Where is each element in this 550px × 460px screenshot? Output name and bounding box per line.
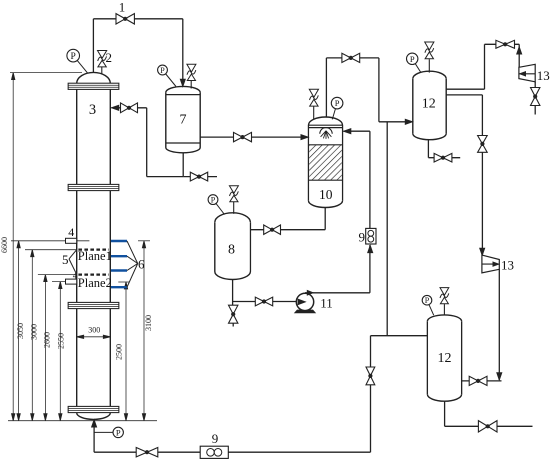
svg-text:12: 12: [438, 351, 452, 366]
svg-text:2600: 2600: [42, 332, 51, 348]
svg-text:Plane2: Plane2: [78, 276, 112, 290]
svg-text:P: P: [116, 427, 121, 437]
svg-text:6600: 6600: [0, 237, 9, 253]
svg-text:P: P: [410, 54, 415, 64]
svg-text:3: 3: [89, 102, 96, 118]
svg-text:9: 9: [212, 431, 219, 446]
svg-text:7: 7: [180, 113, 187, 128]
svg-text:P: P: [335, 98, 340, 108]
svg-text:10: 10: [319, 187, 333, 202]
svg-text:13: 13: [537, 68, 550, 83]
svg-text:P: P: [71, 52, 76, 62]
svg-text:2500: 2500: [114, 344, 123, 360]
svg-text:P: P: [211, 195, 216, 204]
svg-text:6: 6: [138, 257, 145, 272]
svg-text:13: 13: [501, 257, 514, 272]
svg-text:3050: 3050: [16, 323, 25, 339]
svg-text:2550: 2550: [57, 333, 66, 349]
svg-text:4: 4: [68, 225, 74, 239]
svg-text:3100: 3100: [144, 315, 153, 331]
svg-text:2: 2: [105, 50, 112, 65]
svg-text:Plane1: Plane1: [78, 249, 112, 263]
svg-text:P: P: [425, 296, 430, 305]
svg-text:300: 300: [88, 325, 100, 334]
svg-text:9: 9: [359, 229, 366, 244]
svg-text:3000: 3000: [29, 324, 38, 340]
svg-text:1: 1: [119, 0, 126, 15]
svg-text:12: 12: [422, 97, 436, 112]
svg-text:P: P: [160, 66, 165, 75]
svg-text:8: 8: [228, 243, 235, 258]
svg-text:11: 11: [320, 296, 333, 311]
svg-text:5: 5: [62, 252, 69, 267]
